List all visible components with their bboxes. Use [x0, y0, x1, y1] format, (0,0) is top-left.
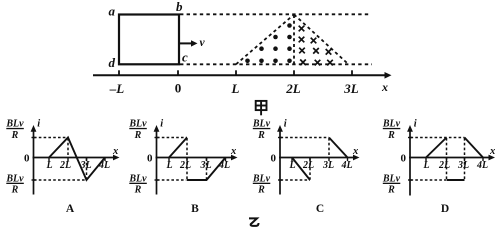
svg-text:A: A [66, 203, 75, 215]
svg-text:3L: 3L [199, 160, 211, 171]
A dashed guide +peak [34, 137, 68, 139]
svg-text:L: L [45, 160, 52, 171]
svg-text:R: R [11, 130, 19, 141]
svg-text:D: D [441, 203, 449, 215]
B dashed guide +peak [157, 137, 187, 139]
svg-text:2L: 2L [438, 160, 450, 171]
tick -L [118, 70, 120, 75]
svg-text:i: i [284, 118, 287, 129]
svg-text:x: x [230, 146, 236, 157]
svg-text:BLv: BLv [128, 173, 147, 184]
D dashed vertical 3L [464, 138, 466, 180]
svg-text:BLv: BLv [382, 119, 401, 130]
svg-text:R: R [387, 185, 395, 196]
svg-text:i: i [37, 118, 40, 129]
D current curve fall [465, 138, 484, 158]
D dashed guide -peak [411, 179, 447, 181]
bottom dashed path line of c [180, 63, 372, 65]
C dashed guide -peak [281, 179, 311, 181]
svg-text:L: L [288, 160, 295, 171]
svg-text:BLv: BLv [5, 173, 24, 184]
svg-text:B: B [191, 203, 199, 215]
svg-text:2L: 2L [285, 81, 301, 96]
svg-text:4L: 4L [476, 160, 488, 171]
svg-text:BLv: BLv [252, 119, 271, 130]
svg-text:4L: 4L [218, 160, 230, 171]
svg-text:2L: 2L [179, 160, 191, 171]
C current curve falling from +peak [329, 138, 348, 158]
D ticks [425, 158, 427, 162]
A current curve [49, 138, 105, 181]
C dashed vertical 3L [328, 138, 330, 157]
C y-axis [279, 130, 281, 195]
axis labels [109, 80, 388, 96]
A y-axis [33, 130, 35, 195]
svg-text:x: x [352, 146, 358, 157]
B dashed vertical 3L [206, 158, 208, 180]
svg-text:R: R [257, 130, 265, 141]
center dashed line at 2L [293, 15, 295, 64]
svg-text:R: R [134, 130, 142, 141]
svg-text:x: x [489, 146, 495, 157]
A dashed guide -peak [34, 179, 87, 181]
svg-text:x: x [112, 146, 118, 157]
B dashed vertical 2L [186, 138, 188, 180]
conducting square loop abcd [119, 15, 179, 65]
caption yi (Chinese) [249, 218, 259, 226]
svg-text:BLv: BLv [252, 173, 271, 184]
C x-axis [279, 157, 355, 159]
svg-text:R: R [134, 185, 142, 196]
svg-text:4L: 4L [340, 160, 352, 171]
svg-text:0: 0 [24, 153, 30, 165]
svg-text:a: a [109, 3, 116, 18]
B dashed guide -peak [157, 179, 187, 181]
A x-axis [33, 157, 116, 159]
svg-text:–L: –L [109, 81, 125, 96]
D x-axis [409, 157, 490, 159]
svg-text:0: 0 [175, 81, 182, 96]
svg-text:i: i [160, 118, 163, 129]
svg-text:R: R [257, 185, 265, 196]
svg-text:c: c [182, 50, 188, 65]
C ticks [291, 158, 293, 162]
C current curve falling negative [292, 158, 310, 181]
svg-text:L: L [422, 160, 429, 171]
svg-text:2L: 2L [59, 160, 71, 171]
svg-text:v: v [200, 37, 206, 49]
A dashed vertical 2L [67, 138, 69, 157]
svg-text:3L: 3L [343, 81, 359, 96]
C dashed vertical 2L [309, 158, 311, 180]
triangular field region: left hypotenuse [236, 15, 294, 65]
C dashed guide +peak [281, 137, 330, 139]
svg-text:BLv: BLv [382, 173, 401, 184]
D y-axis [409, 130, 411, 196]
top dashed path line of b [180, 13, 370, 15]
tick 3L [351, 70, 353, 75]
svg-text:3L: 3L [322, 160, 334, 171]
A ticks [48, 158, 50, 162]
svg-text:0: 0 [271, 153, 277, 165]
tick L [235, 70, 237, 75]
D current curve flat negative [447, 179, 465, 181]
svg-text:3L: 3L [457, 160, 469, 171]
tick 2L [293, 70, 295, 75]
B ticks [168, 158, 170, 162]
A dashed vertical 3L [86, 158, 88, 180]
field dots (out of page) [245, 23, 292, 63]
svg-text:i: i [414, 118, 417, 129]
D dashed vertical 2L [446, 138, 448, 180]
velocity arrow v [180, 42, 192, 44]
svg-text:C: C [316, 203, 324, 215]
field crosses (into page) [299, 26, 333, 66]
svg-text:d: d [109, 55, 116, 70]
B x-axis [156, 157, 234, 159]
main x-axis [93, 74, 385, 76]
D dashed guide +peak [411, 137, 465, 139]
B current curve flat and rise [187, 158, 226, 181]
svg-text:R: R [11, 185, 19, 196]
svg-text:BLv: BLv [128, 119, 147, 130]
B current curve rise [169, 138, 187, 158]
svg-text:3L: 3L [79, 160, 91, 171]
svg-text:2L: 2L [302, 160, 314, 171]
svg-text:0: 0 [401, 153, 407, 165]
svg-text:R: R [387, 130, 395, 141]
B y-axis [156, 130, 158, 195]
svg-text:0: 0 [147, 153, 153, 165]
triangular field region: right hypotenuse [294, 15, 349, 65]
tick 0 [177, 70, 179, 75]
svg-text:L: L [231, 81, 240, 96]
D current curve rise [426, 138, 447, 158]
svg-text:BLv: BLv [5, 119, 24, 130]
svg-text:L: L [165, 160, 172, 171]
caption jia (Chinese) [256, 101, 267, 115]
svg-text:4L: 4L [98, 160, 110, 171]
svg-text:x: x [381, 80, 388, 94]
svg-text:b: b [176, 0, 183, 14]
